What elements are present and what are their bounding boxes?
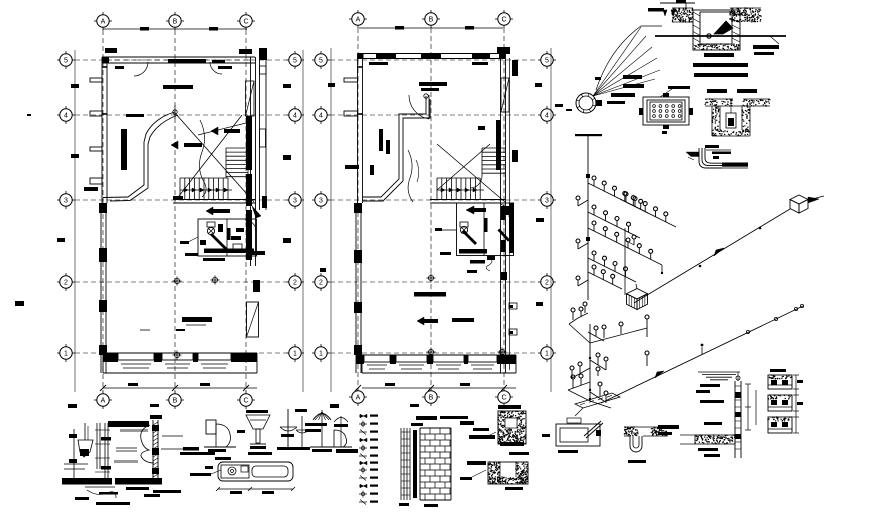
svg-text:A: A: [101, 397, 106, 404]
svg-text:2: 2: [293, 279, 297, 286]
svg-text:B: B: [173, 18, 178, 25]
svg-text:A: A: [356, 16, 361, 23]
svg-text:3: 3: [293, 197, 297, 204]
svg-text:C: C: [243, 18, 248, 25]
svg-text:2: 2: [64, 279, 68, 286]
svg-text:5: 5: [319, 57, 323, 64]
svg-text:C: C: [501, 16, 506, 23]
svg-text:4: 4: [319, 112, 323, 119]
svg-text:C: C: [501, 394, 506, 401]
svg-text:3: 3: [64, 197, 68, 204]
svg-text:1: 1: [319, 350, 323, 357]
svg-text:2: 2: [319, 279, 323, 286]
svg-text:3: 3: [319, 197, 323, 204]
svg-text:1: 1: [545, 350, 549, 357]
svg-text:1: 1: [64, 350, 68, 357]
svg-text:1: 1: [293, 350, 297, 357]
svg-text:A: A: [356, 394, 361, 401]
svg-text:C: C: [243, 397, 248, 404]
svg-text:4: 4: [293, 112, 297, 119]
svg-text:5: 5: [64, 57, 68, 64]
svg-text:5: 5: [293, 57, 297, 64]
svg-text:B: B: [429, 394, 434, 401]
svg-text:4: 4: [64, 112, 68, 119]
svg-text:3: 3: [545, 197, 549, 204]
svg-text:4: 4: [545, 112, 549, 119]
svg-text:B: B: [429, 16, 434, 23]
svg-text:B: B: [173, 397, 178, 404]
svg-text:2: 2: [545, 279, 549, 286]
svg-text:A: A: [101, 18, 106, 25]
svg-text:5: 5: [545, 57, 549, 64]
